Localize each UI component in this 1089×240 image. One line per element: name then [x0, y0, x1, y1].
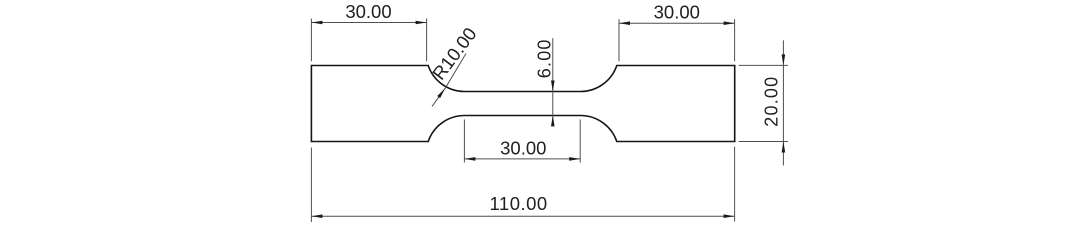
- dimension 30.00 top-left: extension lines: [311, 19, 426, 62]
- dimension 30.00 middle: text: [500, 138, 546, 159]
- dimension 30.00 top-right: text: [654, 1, 700, 22]
- dimension 30.00 top-left: dimension line with arrows: [311, 21, 426, 25]
- dimension 20.00 grip width: extension lines: [739, 65, 788, 141]
- svg-text:20.00: 20.00: [762, 76, 782, 127]
- svg-text:30.00: 30.00: [654, 1, 700, 22]
- dimension 20.00: text (rotated): [762, 76, 782, 127]
- dimension 30.00 top-left: text: [345, 1, 391, 22]
- dimension 30.00 middle: dimension line with arrows: [464, 157, 580, 161]
- svg-text:110.00: 110.00: [489, 193, 547, 214]
- dimension 6.00: text (rotated): [535, 38, 555, 78]
- dimension 110.00: text: [489, 193, 547, 214]
- dimension 30.00 middle (gauge length): extension lines: [464, 120, 580, 163]
- dimension 30.00 top-right: dimension line with arrows: [619, 21, 735, 25]
- dimension 30.00 top-right: extension lines: [619, 19, 735, 61]
- dimension 110.00: dimension line with arrows: [311, 214, 734, 218]
- svg-text:6.00: 6.00: [535, 38, 555, 78]
- svg-text:30.00: 30.00: [500, 138, 546, 159]
- dimension 6.00 gauge width: dimension line: [551, 38, 555, 126]
- dimension R10.00 fillet radius: leader line with arrow: [432, 54, 466, 107]
- svg-text:30.00: 30.00: [345, 1, 391, 22]
- dimension R10.00: text (rotated): [428, 23, 481, 83]
- svg-text:R10.00: R10.00: [428, 23, 481, 83]
- dimension 110.00 overall length: extension lines: [311, 147, 734, 223]
- specimen outline (dogbone tensile specimen): [311, 66, 734, 142]
- dimension 20.00: dimension line with arrows: [782, 40, 786, 165]
